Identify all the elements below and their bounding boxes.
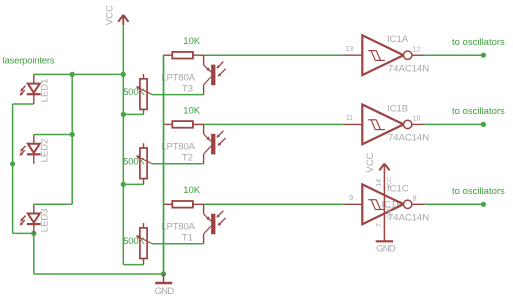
inverter IC1A schmitt trigger symbol <box>368 51 385 61</box>
svg-text:LED2: LED2 <box>40 139 51 163</box>
svg-text:GND: GND <box>155 286 175 297</box>
inverter IC1C triangle <box>362 184 403 224</box>
svg-text:500K: 500K <box>123 156 145 167</box>
resistor 10K row 1 <box>164 52 204 59</box>
wire R3 bottom to VCC rail <box>123 183 143 185</box>
junction to-oscillators row 1 <box>481 53 486 58</box>
svg-text:LPT80A: LPT80A <box>161 222 195 233</box>
wire LED3 cathode down <box>33 233 35 274</box>
svg-text:to oscillators: to oscillators <box>452 106 505 117</box>
inverter IC1B triangle <box>362 105 403 145</box>
phototransistor T3 <box>204 55 226 94</box>
wire collector node T3 to gate input <box>204 54 344 56</box>
svg-text:10K: 10K <box>183 185 201 196</box>
svg-text:10: 10 <box>413 116 421 123</box>
wire left rail vertical <box>12 104 14 233</box>
svg-text:11: 11 <box>346 115 353 122</box>
svg-text:8: 8 <box>413 196 417 203</box>
svg-text:GND: GND <box>387 206 393 218</box>
phototransistor T1 <box>204 204 226 243</box>
LED LED3 <box>20 204 40 233</box>
supply VCC symbol top <box>118 15 128 26</box>
trimmer potentiometer 500K row 1 <box>137 74 152 114</box>
inverter IC1C output bubble <box>404 200 412 208</box>
junction to-oscillators row 3 <box>481 202 486 207</box>
junction LED1 wire / right rail <box>70 72 75 77</box>
inverter IC1A output pin stub 12 <box>412 54 425 56</box>
svg-text:T2: T2 <box>182 153 193 164</box>
LED LED2 <box>20 135 40 164</box>
wire bottom to GND junction <box>34 273 164 275</box>
trimmer potentiometer 500K row 3 <box>137 223 152 265</box>
svg-text:T3: T3 <box>182 83 193 94</box>
inverter IC1A triangle <box>362 35 403 75</box>
svg-text:13: 13 <box>345 46 353 53</box>
svg-text:VCC: VCC <box>104 5 115 25</box>
svg-text:to oscillators: to oscillators <box>452 37 505 48</box>
wire gate IC1A output to oscillators <box>424 54 483 56</box>
svg-text:T1: T1 <box>182 233 193 244</box>
wire LED1 anode to VCC rail <box>34 73 124 75</box>
supply VCC symbol at IC1C pin 14 <box>379 163 389 241</box>
svg-text:500K: 500K <box>123 87 145 98</box>
svg-text:IC1A: IC1A <box>387 34 409 45</box>
resistor 10K row 3 <box>164 201 204 208</box>
wire GND rail vertical <box>163 55 165 274</box>
wire trimmer wiper row T3 <box>152 94 204 96</box>
inverter IC1C schmitt trigger symbol <box>368 200 385 210</box>
svg-text:GND: GND <box>376 244 396 255</box>
svg-text:LPT80A: LPT80A <box>161 72 195 83</box>
inverter IC1C input pin stub 9 <box>344 203 363 205</box>
inverter IC1B output pin stub 10 <box>412 123 425 125</box>
wire gate IC1C output to oscillators <box>424 203 483 205</box>
wire trimmer wiper row T1 <box>152 243 204 245</box>
svg-text:7: 7 <box>376 223 383 227</box>
svg-text:10K: 10K <box>183 36 201 47</box>
junction VCC rail / LED wire <box>121 72 126 77</box>
svg-text:VCC: VCC <box>365 152 376 172</box>
wire collector node T2 to gate input <box>204 123 344 125</box>
inverter IC1B input pin stub 11 <box>344 123 363 125</box>
junction LED2 cathode / left rail <box>10 161 15 166</box>
wire gate IC1B output to oscillators <box>424 123 483 125</box>
LED LED1 <box>20 74 40 104</box>
svg-text:LED3: LED3 <box>40 208 51 232</box>
resistor 10K row 2 <box>164 121 204 128</box>
wire left rail to LED3 cathode <box>13 232 34 234</box>
junction VCC rail / R1 bottom <box>121 112 126 117</box>
svg-text:74AC14N: 74AC14N <box>388 213 429 224</box>
wire R1 bottom to VCC rail <box>123 113 143 115</box>
svg-text:IC1B: IC1B <box>387 103 408 114</box>
junction GND node <box>161 271 166 276</box>
wire LED2 anode to right rail <box>34 134 72 136</box>
ground symbol at IC1C pin 7 <box>376 240 393 242</box>
junction LED2 wire / right rail <box>70 132 75 137</box>
wire collector node T1 to gate input <box>204 203 344 205</box>
wire GND rail vertical overlay <box>163 55 165 274</box>
trimmer potentiometer 500K row 2 <box>137 143 152 184</box>
wire LED1 cathode left <box>13 103 34 105</box>
inverter IC1C output pin stub 8 <box>412 203 425 205</box>
wire VCC rail vertical <box>122 25 124 264</box>
ground symbol bottom <box>155 274 172 283</box>
wire right rail to LED3 anode <box>34 203 72 205</box>
inverter IC1A input pin stub 13 <box>344 54 363 56</box>
inverter IC1A output bubble <box>404 51 412 59</box>
svg-text:14: 14 <box>376 179 383 187</box>
svg-text:10K: 10K <box>183 105 201 116</box>
inverter IC1B output bubble <box>404 120 412 128</box>
svg-text:9: 9 <box>349 195 353 202</box>
junction LED3 cathode <box>31 231 36 236</box>
wire VCC rail corner to R6 bottom <box>123 264 143 266</box>
svg-text:to oscillators: to oscillators <box>452 186 505 197</box>
svg-text:500K: 500K <box>123 236 145 247</box>
svg-text:LPT80A: LPT80A <box>161 142 195 153</box>
wire trimmer wiper row T2 <box>152 163 204 165</box>
inverter IC1B schmitt trigger symbol <box>368 120 385 130</box>
svg-text:laserpointers: laserpointers <box>3 55 55 66</box>
svg-text:LED1: LED1 <box>40 79 51 103</box>
svg-text:12: 12 <box>413 46 421 53</box>
svg-text:VCC: VCC <box>387 177 393 189</box>
junction to-oscillators row 2 <box>481 122 486 127</box>
phototransistor T2 <box>204 124 226 163</box>
svg-text:74AC14N: 74AC14N <box>388 64 429 75</box>
junction VCC rail / R3 bottom <box>121 182 126 187</box>
svg-text:74AC14N: 74AC14N <box>388 133 429 144</box>
wire right vertical rail <box>71 74 73 204</box>
